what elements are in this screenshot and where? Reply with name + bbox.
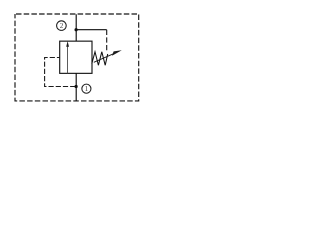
spring S1 (zigzag) bbox=[92, 52, 108, 65]
port 1 line bbox=[75, 73, 77, 101]
valve body V1 (square) bbox=[60, 41, 92, 73]
pilot sense line (dashed, port 1 to spool left) bbox=[45, 58, 76, 87]
envelope (valve boundary, dashed) bbox=[15, 14, 139, 101]
svg-text:1: 1 bbox=[85, 85, 89, 93]
port 2 label circle bbox=[57, 21, 67, 31]
adjustment arrow (through spring) bbox=[94, 53, 115, 62]
node J2 (junction dot on port 2 line) bbox=[75, 28, 78, 31]
svg-text:2: 2 bbox=[60, 22, 64, 30]
node J1 (pilot tap junction dot) bbox=[75, 85, 78, 88]
pilot line to spring (dashed vertical) bbox=[106, 30, 108, 51]
port 2 line bbox=[75, 14, 77, 41]
wire to spring chamber (top branch) bbox=[76, 29, 107, 31]
flow path arrow (normally closed poppet, points up) bbox=[67, 46, 69, 73]
port 1 label circle bbox=[82, 84, 91, 93]
